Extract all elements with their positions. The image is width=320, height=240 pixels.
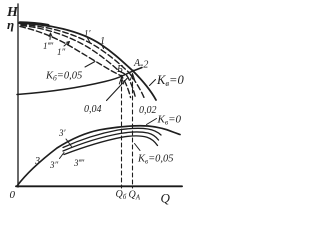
svg-text:0: 0 xyxy=(10,189,16,201)
arrow 1'' label xyxy=(64,42,70,47)
svg-text:3‴′: 3‴′ xyxy=(73,158,85,168)
svg-text:Kв=0: Kв=0 xyxy=(156,73,184,88)
svg-text:-2: -2 xyxy=(140,60,148,71)
leader 3' label xyxy=(66,139,72,147)
svg-text:3′: 3′ xyxy=(58,128,67,138)
svg-text:Б: Б xyxy=(116,64,123,75)
curve bundle start blob xyxy=(20,23,48,26)
svg-text:η: η xyxy=(7,17,14,32)
svg-text:3″: 3″ xyxy=(49,160,59,170)
y-axis xyxy=(17,4,19,187)
svg-text:1″: 1″ xyxy=(57,47,66,57)
curve 2 (system line through A) xyxy=(17,68,142,95)
svg-text:Kв=0,05: Kв=0,05 xyxy=(137,154,174,166)
tick 1 label xyxy=(102,45,104,49)
svg-text:1′: 1′ xyxy=(84,29,92,39)
svg-text:1: 1 xyxy=(100,36,105,47)
svg-text:1‴′: 1‴′ xyxy=(43,41,54,51)
curve 3 (solid eta, Kв=0) xyxy=(17,126,180,186)
leader from 0,04 label xyxy=(107,79,128,101)
x-axis xyxy=(16,185,182,187)
tick 1' label xyxy=(88,38,91,43)
curve 3''' (eta) xyxy=(64,136,158,155)
node B dot xyxy=(120,75,123,78)
dashed vertical Q_Б xyxy=(121,80,123,188)
curve 1' dashed (Kб=0,02) xyxy=(21,25,144,98)
curve 1 (solid H-Q, Kв=0) xyxy=(19,23,156,100)
svg-text:Q: Q xyxy=(161,191,171,206)
leader Kб=0,05 label xyxy=(85,62,95,68)
arrowhead at B xyxy=(119,78,123,85)
leader Kв=0 upper xyxy=(150,80,156,86)
svg-text:Kв=0: Kв=0 xyxy=(157,114,182,127)
dashed vertical Q_А xyxy=(132,75,134,188)
arrow 1''' label xyxy=(49,33,52,40)
arrow 3'' label xyxy=(60,153,65,159)
leader Kв=0,05 lower xyxy=(135,144,141,151)
curve 1'' dashed (Kб=0,04) xyxy=(21,26,136,99)
curve 1''' dashed (Kб=0,05) xyxy=(20,27,131,98)
curve 3'' (eta) xyxy=(63,132,159,151)
svg-text:Kб=0,05: Kб=0,05 xyxy=(45,71,82,83)
svg-text:3: 3 xyxy=(34,156,40,167)
curve 3' (eta) xyxy=(63,128,161,147)
node A dot xyxy=(132,70,135,73)
leader kв=0 middle xyxy=(147,119,157,125)
svg-text:0,04: 0,04 xyxy=(84,104,102,115)
svg-text:0,02: 0,02 xyxy=(139,105,157,116)
arrowhead at A xyxy=(130,74,134,81)
